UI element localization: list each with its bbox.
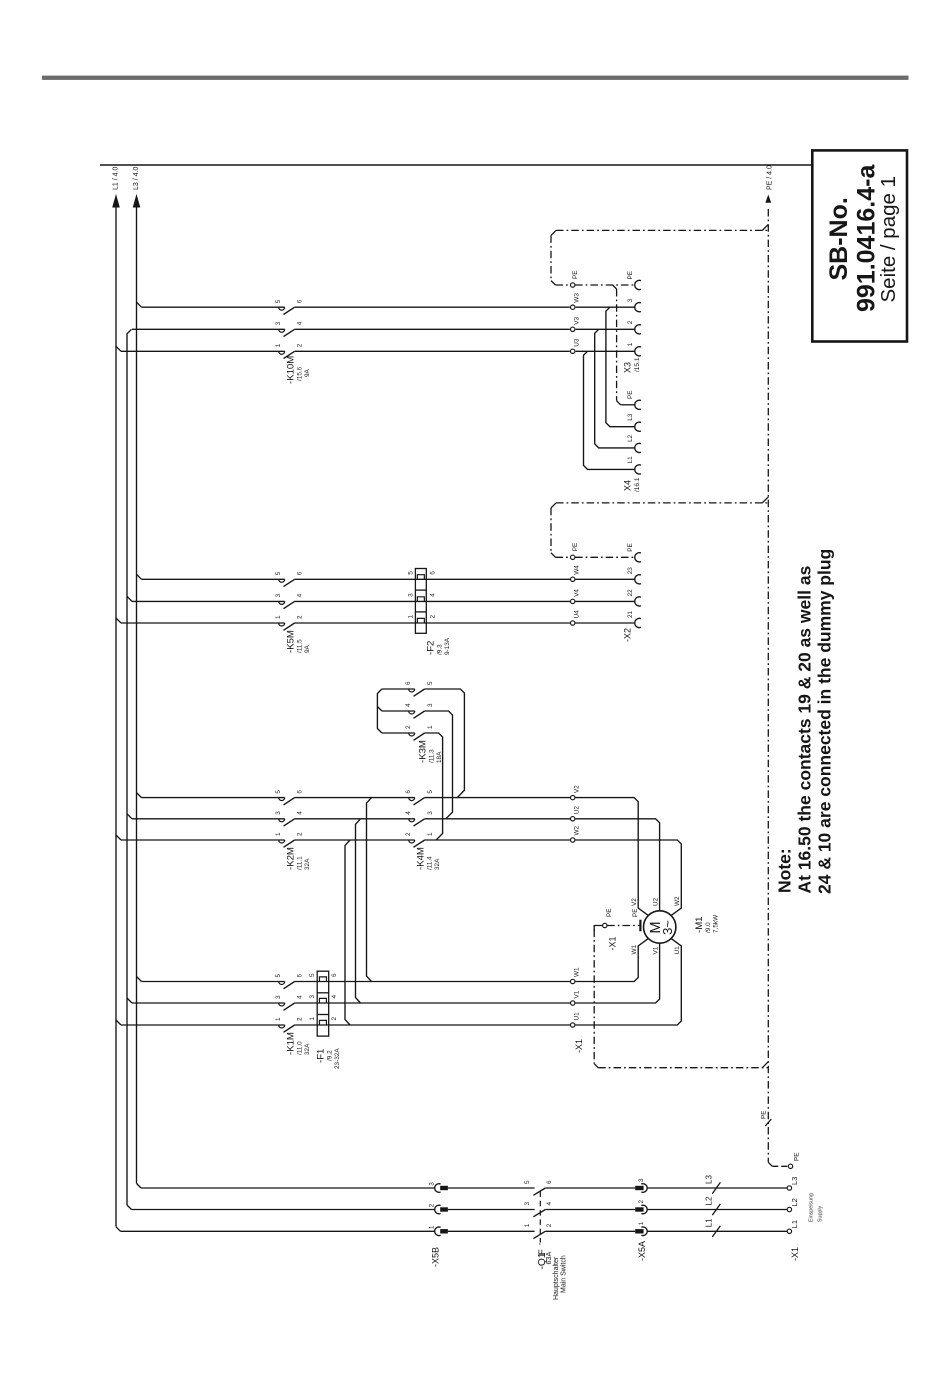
terminal W2	[571, 825, 581, 842]
svg-text:/15.6: /15.6	[297, 366, 304, 381]
svg-text:63A: 63A	[544, 1252, 553, 1265]
svg-text:/9.3: /9.3	[437, 644, 444, 655]
label -M1 /9.0 7,5kW	[694, 914, 720, 933]
svg-text:Seite / page 1: Seite / page 1	[877, 176, 900, 303]
svg-text:5: 5	[275, 571, 282, 575]
svg-text:5: 5	[275, 974, 282, 978]
wire phase L2 to K1M pole 3	[132, 1002, 285, 1004]
cable core marker L3	[705, 1175, 721, 1194]
svg-text:U2: U2	[574, 806, 581, 815]
wire K10M pole 4 to terminal V3	[295, 328, 570, 330]
wire K3M pin 1 to W2 node	[425, 733, 443, 840]
label -X5A	[637, 1241, 647, 1261]
svg-text:PE: PE	[572, 270, 579, 279]
svg-text:2: 2	[405, 725, 412, 729]
svg-text:3: 3	[638, 1178, 645, 1182]
main switch Q1 pole 1-2	[524, 1223, 553, 1238]
label X4 /16.1	[623, 477, 642, 492]
title text SB-No.	[825, 197, 853, 280]
junction taps on L3 bus	[137, 302, 142, 981]
wire terminal U3 to connector X3 pin 1	[576, 350, 635, 352]
PE wire to motor frame	[607, 908, 640, 931]
label -K3M /11.3 18A	[418, 740, 444, 763]
svg-text:4: 4	[297, 811, 304, 815]
svg-text:/11.0: /11.0	[297, 1041, 304, 1055]
contactor K2M pole 5-6	[275, 790, 304, 805]
svg-text:4: 4	[297, 995, 304, 999]
PE drop to X4 PE pin	[613, 285, 635, 405]
contactor K2M pole 1-2	[275, 832, 304, 847]
label -K1M /11.0 32A	[286, 1032, 312, 1055]
PE wire terminal to X3 PE pin	[575, 284, 635, 286]
title text Seite / page 1	[877, 176, 900, 303]
wire W1 to motor lead W1	[575, 939, 648, 982]
contactor K5M pole 1-2	[275, 615, 304, 630]
arrow L1 / 4.0	[112, 167, 120, 208]
wire phase L2 to K5M pole 3	[132, 600, 285, 602]
svg-text:2: 2	[297, 832, 304, 836]
svg-text:9-13A: 9-13A	[444, 637, 451, 655]
svg-text:U3: U3	[574, 338, 581, 347]
fuse F2 pin labels	[408, 571, 437, 619]
svg-text:Einspeisung: Einspeisung	[809, 1193, 815, 1222]
wire terminal W3 to connector X3 pin 3	[576, 306, 635, 308]
cable core marker L1	[705, 1218, 721, 1237]
svg-text:W4: W4	[574, 565, 581, 575]
svg-text:1: 1	[524, 1223, 531, 1227]
svg-text:/11.5: /11.5	[297, 639, 304, 653]
terminal PE of X2 group	[571, 543, 580, 560]
wire phase L2 to K10M pole 3	[132, 328, 285, 330]
svg-text:L2: L2	[790, 1198, 799, 1206]
wire phase L1 to K2M pole 1	[121, 839, 285, 841]
wire terminals to connector X2	[575, 579, 635, 623]
PE wire terminal to X2 PE pin	[575, 556, 635, 558]
label -K5M /11.5 9A	[286, 630, 312, 653]
svg-text:1: 1	[427, 725, 434, 729]
wire phase L3 to K1M pole 5	[142, 981, 285, 983]
svg-text:6: 6	[297, 571, 304, 575]
terminal X1 L1	[787, 1220, 799, 1234]
svg-text:-K2M: -K2M	[286, 847, 297, 870]
connector X5B pin 2	[429, 1203, 448, 1214]
contactor K5M pole 3-4	[275, 593, 304, 608]
svg-text:L2: L2	[627, 434, 634, 442]
wire K3M pin 5 to V2 node	[425, 689, 465, 798]
contactor K10M pole 1-2	[275, 343, 304, 358]
wire V2 to motor lead V2	[575, 798, 648, 916]
svg-text:5: 5	[524, 1180, 531, 1184]
svg-text:4: 4	[430, 593, 437, 597]
svg-text:5: 5	[427, 681, 434, 685]
svg-text:Note:: Note:	[775, 848, 795, 893]
wire K2M pole 2 branch to U1 line	[345, 840, 350, 1025]
svg-text:PE: PE	[572, 543, 579, 552]
wire K3M pin 3 to U2 node	[425, 711, 453, 819]
svg-text:-X2: -X2	[623, 628, 633, 642]
svg-text:Hauptschalter: Hauptschalter	[553, 1256, 560, 1300]
svg-text:1: 1	[309, 1017, 316, 1021]
svg-text:3: 3	[427, 703, 434, 707]
svg-text:-X1: -X1	[790, 1247, 800, 1261]
svg-text:4: 4	[297, 593, 304, 597]
svg-text:3: 3	[275, 593, 282, 597]
svg-text:3: 3	[627, 298, 634, 302]
svg-text:L1: L1	[705, 1218, 714, 1227]
svg-text:23-32A: 23-32A	[334, 1048, 341, 1069]
svg-text:-K10M: -K10M	[286, 356, 297, 384]
svg-text:5: 5	[408, 571, 415, 575]
contactor K4M pole 6-5	[405, 790, 434, 805]
svg-text:-K4M: -K4M	[416, 847, 427, 870]
svg-text:/16.1: /16.1	[634, 477, 641, 492]
contactor K5M pole 5-6	[275, 571, 304, 586]
wire K4M out to terminals V2 U2 W2	[425, 798, 571, 840]
wire V1 to motor lead V1	[575, 943, 660, 1003]
wire phase L3 to K5M pole 5	[142, 578, 285, 580]
svg-text:5: 5	[309, 973, 316, 977]
terminal W3	[571, 293, 581, 310]
contactor K10M pole 3-4	[275, 321, 304, 336]
motor M1	[644, 911, 676, 943]
note heading	[775, 848, 795, 893]
label -F2 /9.3 9-13A	[426, 637, 452, 655]
svg-text:-F1: -F1	[316, 1049, 327, 1063]
svg-text:PE: PE	[627, 271, 634, 280]
svg-text:32A: 32A	[434, 858, 441, 870]
terminal U2	[571, 806, 581, 821]
label -X1 motor PE	[608, 936, 618, 950]
PE branch to X3 group	[551, 224, 768, 285]
wire X5A to supply terminals X1	[647, 1188, 787, 1231]
svg-text:32A: 32A	[304, 1043, 311, 1055]
connector X3 pin 2	[627, 320, 641, 334]
svg-text:/9.2: /9.2	[327, 1050, 334, 1061]
contactor K4M pole 2-1	[405, 832, 434, 847]
svg-text:-K5M: -K5M	[286, 630, 297, 653]
svg-text:32A: 32A	[304, 858, 311, 870]
label -K2M /11.1 32A	[286, 847, 312, 870]
svg-text:22: 22	[627, 589, 634, 597]
wire branch V3 line to X4 pin L2	[595, 329, 635, 448]
svg-text:1: 1	[275, 1017, 282, 1021]
label -X1 motor bottom	[574, 1039, 584, 1053]
svg-text:SB-No.: SB-No.	[825, 197, 853, 280]
fuse block F2	[415, 569, 426, 634]
svg-text:-F2: -F2	[426, 641, 437, 655]
label X3 /15.1	[623, 357, 642, 373]
wire K10M pole 2 to terminal U3	[295, 350, 570, 352]
main switch Q1 pole 5-6	[524, 1180, 553, 1195]
schematic sheet border line	[100, 164, 834, 166]
wire phase L1 to K10M pole 1	[121, 350, 285, 352]
connector X4 pin PE	[627, 390, 641, 409]
PE branch to X2 group	[551, 497, 768, 557]
svg-text:/11.3: /11.3	[429, 749, 436, 763]
svg-text:At 16.50 the contacts 19 & 20: At 16.50 the contacts 19 & 20 as well as	[795, 565, 815, 893]
connector X4 pin L1	[627, 456, 641, 474]
wire bus corners to X5B	[121, 1188, 436, 1231]
svg-text:L3: L3	[627, 413, 634, 421]
svg-text:V1: V1	[653, 946, 660, 954]
svg-text:2: 2	[546, 1223, 553, 1227]
junction taps on L2 bus	[127, 596, 132, 1003]
svg-text:L1: L1	[790, 1220, 799, 1228]
svg-text:4: 4	[405, 703, 412, 707]
svg-text:V3: V3	[574, 317, 581, 325]
wire branch W3 line to X4 pin L3	[606, 307, 635, 427]
contactor K4M pole 4-3	[405, 811, 434, 826]
svg-text:-X1: -X1	[574, 1039, 584, 1053]
svg-text:3: 3	[427, 811, 434, 815]
contactor K2M pole 3-4	[275, 811, 304, 826]
svg-text:~: ~	[535, 1240, 545, 1245]
PE bottom corner and terminal	[768, 1152, 800, 1168]
wire K2M pole 4 branch to V1 line	[356, 819, 361, 1003]
svg-text:/9.0: /9.0	[705, 922, 712, 933]
connector X3 pin 1	[627, 342, 641, 356]
svg-text:L3 / 4.0: L3 / 4.0	[133, 167, 140, 190]
connector X4 pin L2	[627, 434, 641, 452]
svg-text:W3: W3	[574, 293, 581, 303]
svg-text:PE / 4.0: PE / 4.0	[767, 165, 774, 190]
svg-text:-X1: -X1	[608, 936, 618, 950]
wire X5B to main switch Q1	[448, 1188, 535, 1231]
terminal V4	[571, 589, 581, 604]
svg-text:1: 1	[429, 1225, 436, 1229]
connector X2 pin PE	[627, 543, 641, 562]
svg-text:1: 1	[275, 615, 282, 619]
svg-text:21: 21	[627, 610, 634, 618]
svg-text:U4: U4	[574, 610, 581, 619]
connector X5A pin 3	[635, 1178, 647, 1192]
wire branch U3 line to X4 pin L1	[584, 351, 635, 469]
label -X1 supply	[790, 1247, 800, 1261]
wire L2 bus vertical	[127, 329, 132, 1209]
svg-text:2: 2	[429, 1203, 436, 1207]
svg-text:6: 6	[331, 973, 338, 977]
title block SB-No box	[812, 150, 907, 341]
terminal X1 L3	[787, 1177, 799, 1191]
svg-text:7,5kW: 7,5kW	[713, 914, 720, 933]
contactor K10M pole 5-6	[275, 299, 304, 314]
svg-text:PE: PE	[761, 1110, 768, 1119]
svg-text:2: 2	[627, 320, 634, 324]
label -K4M /11.4 32A	[416, 847, 442, 870]
svg-text:6: 6	[297, 790, 304, 794]
label Einspeisung / Supply	[809, 1193, 824, 1222]
svg-text:V4: V4	[574, 589, 581, 597]
svg-text:2: 2	[430, 615, 437, 619]
svg-text:Supply: Supply	[818, 1205, 824, 1222]
svg-text:3: 3	[309, 995, 316, 999]
svg-text:-M1: -M1	[694, 916, 705, 933]
connector X2 pin 21	[627, 610, 641, 627]
svg-text:24 & 10 are connected in the d: 24 & 10 are connected in the dummy plug	[815, 549, 835, 894]
svg-text:1: 1	[275, 832, 282, 836]
svg-text:-X5B: -X5B	[431, 1247, 441, 1267]
contactor K1M pole 5-6	[275, 974, 304, 989]
svg-text:PE: PE	[627, 390, 634, 399]
terminal PE of motor X1	[594, 908, 613, 931]
wire phase L3 to K10M pole 5	[142, 306, 285, 308]
label -Q1 63A Hauptschalter Main Switch	[537, 1252, 568, 1300]
svg-text:4: 4	[546, 1202, 553, 1206]
wire phase L2 to K2M pole 3	[132, 818, 285, 820]
note line 2	[815, 549, 835, 894]
terminal U4	[571, 610, 581, 625]
svg-text:/15.1: /15.1	[634, 357, 641, 372]
connector X5B pin 1	[429, 1225, 448, 1236]
junction taps on L1 bus	[116, 346, 121, 1025]
svg-text:L3: L3	[790, 1177, 799, 1185]
terminal W4	[571, 565, 581, 582]
wire phase L1 to K1M pole 1	[121, 1024, 285, 1026]
svg-text:V2: V2	[631, 898, 638, 906]
wire K5M out to fuse F2	[295, 579, 571, 623]
connector X2 pin 23	[627, 567, 641, 584]
svg-text:L1 / 4.0: L1 / 4.0	[113, 167, 120, 190]
arrow L3 / 4.0	[133, 167, 141, 208]
PE riser with arrow PE / 4.0	[765, 165, 773, 1162]
svg-text:4: 4	[297, 321, 304, 325]
wire W2 to motor lead W2	[575, 840, 681, 915]
svg-text:3: 3	[275, 811, 282, 815]
PE cable core marker	[761, 1110, 772, 1126]
svg-text:1: 1	[275, 343, 282, 347]
svg-text:3: 3	[429, 1182, 436, 1186]
terminal U1	[571, 1012, 581, 1027]
svg-text:2: 2	[331, 1017, 338, 1021]
svg-text:1: 1	[427, 832, 434, 836]
contactor K3M pole 6-5	[405, 681, 434, 696]
Q1 mechanical linkage	[535, 1192, 548, 1256]
connector X3 pin PE	[627, 271, 641, 290]
svg-text:3~: 3~	[660, 920, 675, 935]
svg-text:V2: V2	[574, 785, 581, 793]
svg-text:6: 6	[405, 790, 412, 794]
label -K10M /15.6 9A	[286, 356, 312, 384]
terminal V1	[571, 990, 581, 1005]
terminal X1 L2	[787, 1198, 799, 1212]
svg-text:2: 2	[297, 1017, 304, 1021]
svg-text:3: 3	[275, 321, 282, 325]
connector X2 pin 22	[627, 589, 641, 606]
svg-text:6: 6	[297, 299, 304, 303]
svg-text:L2: L2	[705, 1196, 714, 1205]
svg-text:5: 5	[275, 790, 282, 794]
svg-text:1: 1	[627, 342, 634, 346]
svg-text:/11.4: /11.4	[427, 856, 434, 870]
svg-text:U2: U2	[653, 897, 660, 906]
wire K1M out through F1 to terminals	[295, 982, 571, 1026]
svg-text:9A: 9A	[304, 368, 311, 377]
svg-text:4: 4	[331, 995, 338, 999]
connector X3 pin 3	[627, 298, 641, 312]
title text 991.0416.4-a	[853, 164, 881, 312]
svg-text:2: 2	[297, 343, 304, 347]
svg-text:1: 1	[638, 1221, 645, 1225]
wire phase L1 to K5M pole 1	[121, 622, 285, 624]
terminal V3	[571, 317, 581, 332]
svg-text:6: 6	[546, 1180, 553, 1184]
svg-text:U1: U1	[574, 1012, 581, 1021]
contactor K3M pole 2-1	[405, 725, 434, 740]
contactor K1M pole 1-2	[275, 1017, 304, 1032]
svg-text:2: 2	[405, 832, 412, 836]
svg-text:U1: U1	[674, 946, 681, 955]
contactor K1M pole 3-4	[275, 995, 304, 1010]
svg-text:PE: PE	[627, 543, 634, 552]
wire K3M left jumper	[377, 689, 414, 733]
wire K10M pole 6 to terminal W3	[295, 306, 570, 308]
main switch Q1 pole 3-4	[524, 1202, 553, 1217]
svg-text:W2: W2	[574, 825, 581, 835]
wire phase L3 to K2M pole 5	[142, 797, 285, 799]
motor enclosure dash-dot boundary	[594, 930, 768, 1068]
svg-text:3: 3	[275, 995, 282, 999]
svg-text:V1: V1	[574, 990, 581, 998]
svg-text:W1: W1	[631, 944, 638, 954]
svg-text:4: 4	[405, 811, 412, 815]
svg-text:23: 23	[627, 567, 634, 575]
wire U2 to motor lead U2	[575, 819, 660, 911]
label -X5B	[431, 1247, 441, 1267]
label -X2	[623, 628, 633, 642]
svg-text:L3: L3	[705, 1175, 714, 1184]
svg-text:2: 2	[638, 1200, 645, 1204]
fuse F1 pin labels	[309, 973, 338, 1021]
note line 1	[795, 565, 815, 893]
wire K2M out to K4M	[295, 798, 415, 840]
wire U1 to motor lead U1	[575, 939, 681, 1025]
fuse block F1	[317, 971, 329, 1036]
svg-text:3: 3	[408, 593, 415, 597]
svg-text:L1: L1	[627, 456, 634, 464]
svg-text:-X5A: -X5A	[637, 1241, 647, 1261]
wire terminal V3 to connector X3 pin 2	[576, 328, 635, 330]
svg-text:-K3M: -K3M	[418, 740, 429, 763]
svg-text:5: 5	[275, 299, 282, 303]
svg-text:Main Switch: Main Switch	[561, 1255, 568, 1293]
contactor K3M pole 4-3	[405, 703, 434, 718]
label -F1 /9.2 23-32A	[316, 1048, 342, 1069]
svg-text:2: 2	[297, 615, 304, 619]
svg-text:1: 1	[408, 615, 415, 619]
svg-text:PE: PE	[606, 908, 613, 917]
wire L3 bus vertical	[137, 207, 142, 1188]
svg-text:6: 6	[297, 974, 304, 978]
svg-text:6: 6	[405, 681, 412, 685]
svg-text:5: 5	[427, 790, 434, 794]
svg-text:PE: PE	[632, 908, 639, 917]
svg-text:PE: PE	[794, 1152, 801, 1161]
page top rule	[42, 76, 909, 80]
connector X4 pin L3	[627, 413, 641, 431]
svg-text:X4: X4	[623, 480, 633, 491]
svg-text:6: 6	[430, 571, 437, 575]
svg-text:3: 3	[524, 1202, 531, 1206]
terminal W1	[571, 967, 581, 984]
wire L1 bus vertical	[116, 207, 121, 1231]
svg-text:9A: 9A	[304, 644, 311, 653]
svg-text:X3: X3	[623, 362, 633, 373]
terminal PE of X3 group	[571, 270, 580, 287]
connector X5B pin 3	[429, 1182, 448, 1192]
svg-text:W2: W2	[674, 896, 681, 906]
connector X5A pin 1	[635, 1221, 647, 1235]
wire Q1 to X5A	[545, 1188, 635, 1231]
